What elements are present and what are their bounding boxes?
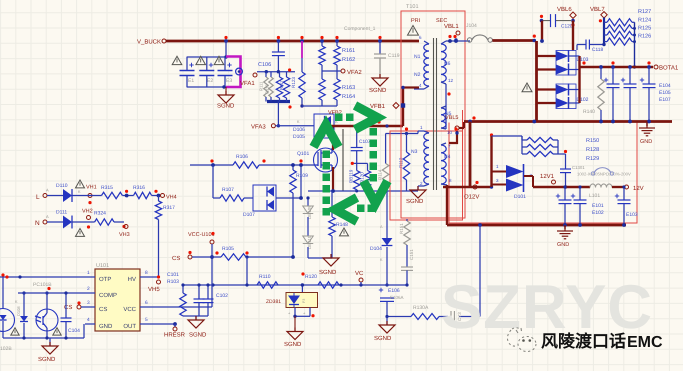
wire R106 row xyxy=(190,159,233,167)
watermark SZRYC xyxy=(441,273,653,342)
wire sense bottom rail xyxy=(308,189,418,193)
svg-text:P3: P3 xyxy=(302,299,306,303)
resistor R110 xyxy=(257,274,278,288)
svg-text:VBL1: VBL1 xyxy=(444,23,459,30)
wire VFA1 row xyxy=(257,68,295,73)
wire pin8 to ground bus xyxy=(446,185,448,225)
resistor RB119 xyxy=(349,163,360,189)
svg-text:R128: R128 xyxy=(586,147,599,153)
capacitor C107 xyxy=(351,126,371,163)
svg-text:R110: R110 xyxy=(259,274,271,280)
svg-text:D111: D111 xyxy=(56,210,67,216)
svg-text:3: 3 xyxy=(87,300,90,306)
resistor R129 xyxy=(522,151,599,162)
svg-text:R162: R162 xyxy=(342,57,355,63)
wire VBL5 bus drop xyxy=(469,122,472,188)
diode D111 xyxy=(56,210,72,229)
svg-text:6: 6 xyxy=(145,300,148,306)
diode D103a xyxy=(537,50,580,62)
wire pin12 down xyxy=(446,84,451,126)
svg-text:VFA3: VFA3 xyxy=(251,124,266,131)
text SEC xyxy=(436,18,447,24)
svg-text:D105: D105 xyxy=(293,134,305,140)
svg-text:SGND: SGND xyxy=(369,87,387,94)
svg-text:R148: R148 xyxy=(336,222,348,228)
svg-text:D101: D101 xyxy=(514,194,526,200)
wire R bundle left stubs xyxy=(604,22,607,41)
resistor R315 xyxy=(101,185,122,199)
svg-text:VFA1: VFA1 xyxy=(240,80,255,87)
svg-text:1: 1 xyxy=(87,270,90,276)
magenta highlight bracket xyxy=(226,57,241,88)
wire Y cap riser xyxy=(459,225,480,317)
resistor R113 xyxy=(399,134,410,192)
svg-text:EMC: EMC xyxy=(627,334,663,351)
svg-text:E2: E2 xyxy=(207,78,213,84)
svg-text:R130A: R130A xyxy=(413,305,429,311)
bundle bottom bar xyxy=(266,97,292,109)
jumper arc L101 xyxy=(591,168,613,176)
dual diode D107 xyxy=(243,185,301,218)
svg-text:SGND: SGND xyxy=(38,356,56,363)
green dotted trail bottom xyxy=(357,205,375,213)
junction dots on bus xyxy=(224,39,382,43)
svg-text:VFB1: VFB1 xyxy=(370,103,386,110)
resistor R117 xyxy=(276,72,284,98)
svg-text:R126: R126 xyxy=(638,34,651,40)
svg-text:R161: R161 xyxy=(342,48,355,54)
resistor R127 xyxy=(607,9,651,26)
wire VBL5 to bus xyxy=(446,122,464,143)
wire gate protection xyxy=(299,163,303,200)
net label VH1 xyxy=(86,185,97,205)
output return bus xyxy=(464,116,672,123)
red markers on bus xyxy=(224,36,381,39)
net label CS pin3 xyxy=(64,301,85,311)
rectifier D101 xyxy=(506,164,533,200)
wire feedback row xyxy=(183,283,409,286)
svg-text:O12V: O12V xyxy=(464,194,479,201)
svg-text:D107: D107 xyxy=(243,212,255,218)
diode DB110 xyxy=(303,217,314,249)
svg-text:L101: L101 xyxy=(589,193,600,199)
net label VFA3 xyxy=(251,124,275,131)
net label V_BUCK xyxy=(137,39,166,46)
wire N to D111 xyxy=(47,221,63,223)
warning triangle rectifier xyxy=(522,83,532,92)
wire sec top xyxy=(446,35,470,43)
svg-text:102B: 102B xyxy=(0,346,12,352)
wire R bundle right rail xyxy=(632,22,636,68)
diode D110 xyxy=(56,183,81,202)
warning triangle L row xyxy=(76,180,85,188)
resistor R120 xyxy=(305,274,339,288)
warning triangle E3 xyxy=(214,56,224,64)
inductor L101 xyxy=(589,184,612,199)
svg-text:CS: CS xyxy=(172,255,180,262)
svg-text:HRESR: HRESR xyxy=(164,332,186,339)
wire pin1 stub xyxy=(417,131,419,134)
capacitor C118 xyxy=(577,40,606,54)
svg-text:CS: CS xyxy=(99,306,107,313)
svg-text:C120: C120 xyxy=(561,24,573,30)
svg-text:VH3: VH3 xyxy=(119,232,130,238)
svg-text:C101: C101 xyxy=(167,272,179,278)
wire BOTA1 rail xyxy=(580,61,654,69)
svg-text:BOTA1: BOTA1 xyxy=(659,65,679,72)
svg-text:E105: E105 xyxy=(659,90,671,96)
svg-text:SGND: SGND xyxy=(217,103,235,110)
svg-text:R150: R150 xyxy=(586,138,599,144)
resistor R120B xyxy=(360,163,371,189)
resistor R114 xyxy=(378,163,389,189)
primary winding N1 N2 xyxy=(414,35,429,89)
svg-text:U101: U101 xyxy=(96,263,109,269)
warning triangle E2 xyxy=(196,56,206,64)
resistor R163 xyxy=(319,71,355,100)
capacitor E105 xyxy=(621,67,671,122)
svg-text:R324: R324 xyxy=(94,211,106,217)
net label 12V1 xyxy=(540,173,556,184)
resistor R124 xyxy=(607,18,651,33)
svg-text:R124: R124 xyxy=(638,18,651,24)
output red box xyxy=(449,123,637,224)
green dotted trail top xyxy=(335,114,354,122)
snubber rails xyxy=(522,136,567,154)
capacitor E102 xyxy=(571,185,604,225)
resistor R123 xyxy=(291,58,305,108)
svg-text:COMP: COMP xyxy=(99,292,117,299)
svg-text:ZD381: ZD381 xyxy=(266,299,281,305)
svg-text:2: 2 xyxy=(87,286,90,292)
wire to D101 pin3 xyxy=(443,133,493,188)
svg-text:C119: C119 xyxy=(388,53,400,59)
ground SGND opto xyxy=(38,338,58,363)
svg-text:E104: E104 xyxy=(659,83,671,89)
text C101 R103 xyxy=(167,272,179,285)
U101 pin names xyxy=(99,276,137,330)
svg-text:SGND: SGND xyxy=(406,198,424,205)
net label 12V xyxy=(625,185,644,192)
diode D102b xyxy=(537,84,589,109)
svg-text:R125: R125 xyxy=(638,26,651,32)
wire bundle to VFA3 row xyxy=(277,102,280,128)
resistor R164 xyxy=(334,71,355,100)
wire down to R107 row xyxy=(212,165,214,198)
resistor R150 xyxy=(522,136,599,144)
secondary red box xyxy=(390,110,463,220)
svg-text:N2: N2 xyxy=(414,72,421,78)
wire D111 to R324 xyxy=(72,221,95,223)
capacitor E106 xyxy=(379,288,404,318)
svg-text:E1: E1 xyxy=(188,78,194,84)
svg-text:VFA2: VFA2 xyxy=(347,69,362,76)
svg-text:R317: R317 xyxy=(163,205,175,211)
wire R106 to Q101 gate xyxy=(259,159,315,165)
svg-text:V_BUCK: V_BUCK xyxy=(137,39,161,46)
svg-text:E102: E102 xyxy=(592,210,604,216)
capacitor E107 xyxy=(640,67,671,122)
wire N3 pin1 feed xyxy=(386,127,418,163)
capacitor E3 xyxy=(218,57,233,87)
warning triangle opto b xyxy=(53,328,61,335)
svg-text:8: 8 xyxy=(145,270,148,276)
rectifier bus vertical xyxy=(535,41,538,122)
svg-text:R106: R106 xyxy=(236,154,248,160)
svg-text:R107: R107 xyxy=(222,187,234,193)
svg-text:C102: C102 xyxy=(216,293,228,299)
capacitor CY3 xyxy=(451,311,462,322)
secondary winding N6 xyxy=(441,41,454,84)
svg-text:GND: GND xyxy=(557,242,569,248)
svg-text:D106: D106 xyxy=(293,127,305,133)
capacitor C104 xyxy=(61,291,81,338)
diode D103b xyxy=(537,51,589,76)
wire R109 down xyxy=(292,193,294,257)
svg-text:E101: E101 xyxy=(592,203,604,209)
resistor R324 xyxy=(94,211,114,226)
svg-text:VCC: VCC xyxy=(123,306,136,313)
text 102B xyxy=(0,346,12,352)
ground GND right xyxy=(639,122,655,146)
wire bus to R161 R162 xyxy=(322,41,337,46)
svg-text:C1301: C1301 xyxy=(572,165,585,170)
svg-text:PRI: PRI xyxy=(411,18,421,24)
wire caps bottom rail xyxy=(187,85,226,88)
svg-text:C151: C151 xyxy=(409,249,414,260)
svg-text:R140: R140 xyxy=(583,109,595,115)
svg-text:R151: R151 xyxy=(399,223,404,234)
wire D110 to R315 xyxy=(72,195,102,197)
svg-text:R129: R129 xyxy=(586,156,599,162)
svg-text:J104: J104 xyxy=(466,23,477,29)
svg-text:4: 4 xyxy=(87,317,90,323)
capacitor C120 xyxy=(540,14,575,43)
net label VH5 xyxy=(148,275,161,293)
logo doodle xyxy=(507,328,536,352)
wire COMP to opto xyxy=(18,292,85,294)
svg-text:E107: E107 xyxy=(659,97,671,103)
svg-text:VBL5: VBL5 xyxy=(445,115,458,121)
svg-text:GND: GND xyxy=(99,323,113,330)
wire HV to VH5 xyxy=(150,276,157,278)
net label CS upper xyxy=(172,251,192,262)
wire 12V rail xyxy=(524,176,590,187)
resistor R126 xyxy=(607,34,651,46)
ground SGND C119 xyxy=(369,74,388,94)
svg-text:E3: E3 xyxy=(226,78,232,84)
wire CS to R105 xyxy=(192,256,221,258)
transformer red box xyxy=(401,11,465,218)
wire GND pin down xyxy=(83,324,85,338)
svg-text:R120: R120 xyxy=(305,274,317,280)
ground SGND ZD381 xyxy=(284,308,315,349)
inductor J104 xyxy=(454,23,492,42)
resistor R118 xyxy=(283,72,289,98)
resistor R125 xyxy=(607,26,651,39)
svg-text:DB110: DB110 xyxy=(307,235,312,249)
svg-text:OTP: OTP xyxy=(99,276,111,283)
svg-text:R127: R127 xyxy=(638,9,651,15)
capacitor E103 xyxy=(615,185,638,225)
resistor R107 xyxy=(213,187,244,201)
port VBL6 xyxy=(557,6,576,18)
resistor R162 xyxy=(334,46,355,65)
wire L to D110 xyxy=(47,195,63,197)
warning triangle N row xyxy=(76,229,85,237)
U101 pin stubs left xyxy=(85,270,95,324)
capacitor C131 xyxy=(560,154,571,189)
svg-text:5: 5 xyxy=(145,317,148,323)
net label VBL1 xyxy=(444,23,460,35)
svg-text:VH2: VH2 xyxy=(82,209,93,215)
svg-text:A: A xyxy=(46,188,49,193)
net label L xyxy=(36,188,49,202)
net label VH4 xyxy=(152,190,177,201)
resistor R140 xyxy=(583,67,604,122)
svg-text:N1: N1 xyxy=(414,54,421,60)
svg-text:CS: CS xyxy=(64,304,72,311)
svg-text:E106: E106 xyxy=(388,288,400,294)
svg-text:12V: 12V xyxy=(633,185,644,192)
net label VFA1 xyxy=(240,73,257,87)
capacitor C102a xyxy=(194,283,205,316)
svg-text:10: 10 xyxy=(447,130,453,135)
svg-text:C104: C104 xyxy=(68,328,80,334)
warning triangle opto a xyxy=(11,328,19,335)
svg-text:SGND: SGND xyxy=(189,332,207,339)
svg-text:VBL6: VBL6 xyxy=(557,6,572,13)
capacitor E104 xyxy=(604,67,671,122)
net label BOTA1 xyxy=(654,65,679,72)
wire OTP row xyxy=(0,275,85,278)
capacitor E101 xyxy=(556,185,604,225)
connector socket X1 xyxy=(236,68,243,75)
resistor R116 xyxy=(265,72,274,97)
resistor R151 xyxy=(399,219,410,245)
resistor R109 xyxy=(290,163,308,193)
svg-text:C107: C107 xyxy=(359,139,371,145)
wire D101 snubber riser xyxy=(492,136,507,187)
svg-text:R116: R116 xyxy=(265,84,270,94)
svg-text:R164: R164 xyxy=(342,94,355,100)
svg-text:R315: R315 xyxy=(101,185,113,191)
wire VBL7 rail xyxy=(603,18,605,45)
green loop arrow down xyxy=(364,181,388,204)
svg-text:R114: R114 xyxy=(378,169,383,180)
net label VFA2 xyxy=(322,65,362,76)
net label O12V xyxy=(464,181,479,201)
wire opto emitter rail xyxy=(3,336,84,339)
wire J104 to rectifier xyxy=(492,35,536,43)
svg-text:风陵渡口话: 风陵渡口话 xyxy=(541,332,626,351)
transformer core xyxy=(434,38,437,190)
wire OUT to HRESR xyxy=(150,322,177,326)
port VBL7 xyxy=(590,6,607,22)
svg-text:R316: R316 xyxy=(133,185,145,191)
warning triangle T101 xyxy=(408,26,419,36)
text T101 xyxy=(406,4,419,10)
resistor R316 xyxy=(133,185,152,199)
svg-text:VH4: VH4 xyxy=(166,195,177,201)
text R105 xyxy=(222,246,234,252)
resistor R106 xyxy=(233,154,259,168)
capacitor C151 xyxy=(401,245,414,285)
warning triangle E1 xyxy=(172,56,182,64)
wire drain bus to transformer xyxy=(330,120,403,127)
resistor R148 xyxy=(329,191,349,236)
optocoupler U102 transistor side xyxy=(35,291,58,338)
secondary ground bus xyxy=(447,223,626,227)
svg-text:VH5: VH5 xyxy=(148,286,160,293)
svg-text:A: A xyxy=(46,214,49,219)
wire to SGND mid xyxy=(308,236,332,258)
resistor R130A xyxy=(387,305,448,320)
magenta wire segment xyxy=(301,41,303,58)
svg-text:C106: C106 xyxy=(258,62,271,68)
svg-text:12: 12 xyxy=(448,78,454,83)
capacitor E1 xyxy=(180,57,195,87)
ground SGND E106 xyxy=(374,317,395,343)
svg-text:R117: R117 xyxy=(279,80,284,90)
svg-text:12V1: 12V1 xyxy=(540,173,555,180)
wire V_BUCK bus xyxy=(166,40,419,43)
svg-text:T101: T101 xyxy=(406,4,419,10)
ground SGND bulk caps xyxy=(217,87,235,110)
capacitor E2 xyxy=(199,57,214,87)
secondary winding N5 xyxy=(441,106,453,135)
svg-text:SGND: SGND xyxy=(374,335,392,342)
svg-text:N6: N6 xyxy=(444,61,451,67)
wire VCC to riser xyxy=(150,306,212,308)
capacitor C102b xyxy=(203,283,229,316)
svg-text:D104: D104 xyxy=(370,246,382,252)
net label VFB2 xyxy=(328,110,342,116)
optocoupler U102 LED side xyxy=(0,273,15,338)
resistor R103 xyxy=(180,283,186,316)
svg-text:VC: VC xyxy=(355,270,364,277)
svg-text:Q101: Q101 xyxy=(297,151,309,157)
wire sense top rail xyxy=(343,129,368,191)
wire R123 bottom row xyxy=(302,100,337,106)
text brand xyxy=(541,332,663,351)
IC U101 body xyxy=(95,263,140,331)
wire cathode join xyxy=(578,56,580,103)
resistor R105 xyxy=(221,254,246,260)
wire R105 to riser xyxy=(245,251,295,286)
wire to bulk caps xyxy=(187,41,228,59)
resistor R161 xyxy=(319,46,355,65)
zener ZD381 xyxy=(266,272,318,307)
svg-text:HV: HV xyxy=(128,276,136,283)
svg-text:Component_1: Component_1 xyxy=(344,26,376,32)
wire Q101 source xyxy=(332,167,334,191)
wire Q101 drain xyxy=(332,126,334,150)
green loop arrow right xyxy=(355,106,378,130)
diode D108 xyxy=(15,291,28,338)
svg-text:R109: R109 xyxy=(296,173,308,179)
net label VH3 xyxy=(114,222,130,238)
resistor R111 xyxy=(259,72,269,97)
diode D102a xyxy=(537,84,580,96)
resistor R317 xyxy=(155,196,175,220)
net label VFB1 xyxy=(370,103,405,111)
transistor Q101 xyxy=(297,148,338,172)
svg-text:SGND: SGND xyxy=(319,269,337,276)
svg-text:OUT: OUT xyxy=(123,323,136,330)
net label VCC-U101 xyxy=(188,232,215,244)
svg-text:R111: R111 xyxy=(259,81,264,91)
